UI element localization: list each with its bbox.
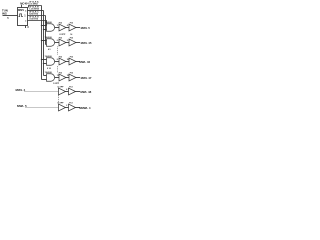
wire G4 input a — [44, 75, 47, 77]
buffer U5b — [69, 74, 76, 81]
wire U3a to U3b — [66, 42, 69, 44]
bus 2 — [43, 11, 45, 76]
label above U2b — [70, 22, 74, 24]
label above gate G4 — [45, 71, 53, 74]
label above U6b — [69, 86, 73, 88]
dashed link rows 2-3 — [57, 47, 59, 56]
buffer U7b — [69, 104, 76, 111]
pin number G4 out — [57, 75, 59, 77]
label above U3a — [59, 37, 63, 39]
pin number G3 out — [57, 59, 58, 61]
wire U4a to U4b — [66, 61, 69, 63]
svg-text:14: 14 — [70, 33, 72, 36]
label above U4b — [70, 56, 74, 58]
U1 pin number 2 — [25, 21, 26, 23]
svg-text:ING: ING — [2, 12, 7, 16]
pin text below G2 — [48, 48, 51, 51]
label above gate G1 — [45, 21, 53, 24]
buffer U4a — [59, 58, 66, 65]
label above U5b — [70, 72, 74, 74]
output label MWL 47 — [81, 76, 92, 80]
label above U3b — [70, 37, 74, 39]
wire output row 4 — [76, 77, 80, 79]
input label row 5 — [16, 88, 26, 92]
wire G4 input b — [42, 79, 47, 81]
junction dot row 1 input a — [41, 25, 42, 26]
pin number U6b in — [66, 88, 67, 91]
svg-text:MWL 47: MWL 47 — [81, 76, 92, 80]
U1 bottom pin stub — [25, 26, 27, 29]
wire tick label to box — [21, 5, 23, 8]
U1 pin number 4 — [25, 9, 26, 12]
dashed link rows 5-6 — [58, 96, 60, 104]
svg-text:8: 8 — [57, 59, 58, 61]
svg-text:4 5: 4 5 — [48, 48, 51, 51]
wire G2 input a — [42, 40, 47, 42]
wire U2a to U2b — [66, 27, 69, 29]
svg-text:2: 2 — [66, 105, 67, 107]
pin number G1 out — [57, 25, 58, 27]
output label MWL 45 — [81, 41, 92, 45]
wire U7a to U7b — [66, 107, 69, 109]
IC U1 box — [18, 8, 28, 26]
U1 one-shot pulse symbol — [19, 14, 23, 17]
svg-text:MWL 5: MWL 5 — [81, 26, 91, 30]
wire output row 2 — [76, 42, 80, 44]
wire row D to gate G1 — [28, 21, 47, 26]
svg-text:4: 4 — [66, 88, 67, 91]
wire row C to bus 3 — [28, 15, 46, 17]
U1 internal pin mark — [24, 15, 26, 18]
buffer U6b — [69, 88, 76, 95]
U1 internal text MMV — [18, 8, 24, 12]
pin label row B — [29, 6, 39, 10]
output label MWL 48 — [80, 90, 91, 94]
svg-text:MWL 45: MWL 45 — [81, 41, 92, 45]
label above gate G3 — [45, 55, 53, 58]
wire G3 input a — [42, 59, 47, 61]
wire output row 3 — [76, 61, 80, 63]
wire G1 input b — [44, 29, 47, 31]
dashed link rows 3-4 — [57, 66, 59, 73]
svg-text:2: 2 — [25, 21, 26, 23]
wire U6a to U6b — [66, 91, 69, 93]
buffer U2b — [69, 24, 76, 31]
buffer U7a — [59, 104, 66, 111]
AND gate G2 — [47, 39, 55, 47]
pin label row D — [29, 16, 39, 20]
wire row B to bus 2 — [28, 10, 44, 12]
svg-text:11: 11 — [57, 75, 59, 77]
pin number U7b in — [66, 105, 67, 107]
pin number G2 out — [57, 40, 58, 42]
AND gate G4 — [47, 74, 55, 82]
pin number U2b in — [67, 24, 68, 27]
buffer U3a — [59, 39, 66, 46]
junction dot row 3 input b — [43, 63, 44, 64]
input label row 6 — [17, 104, 27, 108]
svg-text:MWL 48: MWL 48 — [80, 90, 91, 94]
output label NMWL 4 — [79, 106, 91, 110]
svg-text:12: 12 — [67, 75, 69, 77]
svg-text:6: 6 — [57, 40, 58, 42]
buffer U6a — [59, 88, 66, 95]
wire input row 5 — [24, 91, 59, 93]
svg-text:O XPP: O XPP — [59, 34, 66, 36]
wire U5a to U5b — [66, 77, 69, 79]
junction dot row 1 input b — [43, 29, 44, 30]
label above U1 — [20, 1, 29, 5]
label above U5a — [59, 72, 63, 74]
junction dot row 3 input a — [41, 59, 42, 60]
buffer U4b — [69, 58, 76, 65]
pin number U5b in — [67, 75, 69, 77]
wire G2 to U3a — [55, 42, 59, 44]
wire row A to bus 1 — [29, 6, 42, 8]
pin text below G3 — [47, 68, 52, 70]
bus 3 — [45, 16, 47, 45]
wire input row 6 — [25, 107, 59, 109]
wire G3 to U4a — [55, 61, 59, 63]
buffer U2a — [59, 24, 66, 31]
pin text below G4 — [53, 83, 60, 85]
wire G4 to U5a — [55, 77, 59, 79]
svg-text:3: 3 — [57, 25, 58, 27]
svg-text:4: 4 — [25, 9, 26, 12]
svg-text:10: 10 — [67, 59, 69, 61]
pin number U4b in — [67, 59, 69, 61]
pin label row A — [29, 0, 39, 5]
svg-text:4: 4 — [67, 24, 68, 27]
wire G1 to U2a — [55, 27, 59, 29]
label above U2a — [59, 22, 63, 24]
output label MWL 46 — [79, 60, 90, 64]
pin 3 label — [27, 26, 29, 29]
pin number U3b in — [67, 40, 68, 42]
svg-text:NMWL 4: NMWL 4 — [79, 106, 91, 110]
label above U7b — [69, 102, 73, 104]
input label TUNING — [2, 9, 8, 16]
svg-text:MWL 46: MWL 46 — [79, 60, 90, 64]
wire output row 6 — [76, 107, 81, 109]
buffer U5a — [59, 74, 66, 81]
label above U7a — [57, 102, 64, 104]
svg-text:O XPP: O XPP — [53, 83, 60, 85]
svg-text:MWL 4: MWL 4 — [16, 88, 26, 92]
pin label row C — [29, 11, 39, 15]
wire G3 input b — [44, 63, 47, 65]
bus 1 — [41, 6, 43, 80]
AND gate G3 — [47, 58, 55, 66]
wire G2 input b — [46, 44, 47, 46]
svg-text:2: 2 — [67, 40, 68, 42]
output label MWL 5 — [81, 26, 91, 30]
pin 5 label — [7, 17, 9, 20]
svg-text:MMV: MMV — [18, 8, 24, 12]
wire input to U1 — [3, 15, 18, 17]
label above U4a — [59, 56, 63, 58]
wire G1 input a — [42, 25, 47, 27]
label above U6a — [57, 86, 64, 88]
pin text below U2a U2b — [59, 33, 72, 36]
wire output row 5 — [76, 91, 81, 93]
AND gate G1 — [47, 24, 55, 32]
label above gate G2 — [45, 36, 53, 39]
wire output row 1 — [76, 27, 80, 29]
buffer U3b — [69, 39, 76, 46]
junction dot row 2 input a — [41, 40, 42, 41]
